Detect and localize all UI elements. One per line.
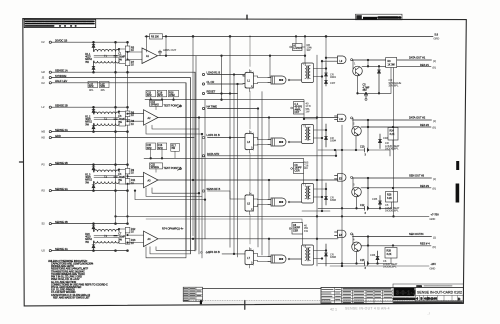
svg-text:C10: C10 (360, 146, 365, 149)
svg-text:1K: 1K (131, 182, 134, 185)
wire ch3 tie drop (367, 178, 369, 209)
wire RES 4 (361, 245, 431, 247)
wire FF7 to gate (258, 254, 269, 262)
svg-text:1K: 1K (131, 172, 134, 175)
nand gate L9 (335, 56, 353, 64)
capacitor C18 (100, 81, 110, 88)
diode CR2a (92, 107, 95, 114)
label CR magnet ch1 (389, 78, 402, 88)
svg-text:5.8: 5.8 (435, 32, 439, 36)
wire data-res tie ch2 (367, 120, 369, 128)
svg-text:3404: 3404 (330, 75, 336, 79)
node gnd bus crossings (316, 216, 394, 267)
nand gate L4 (268, 138, 302, 146)
pin LOFS R1 B (202, 133, 220, 139)
wire amp4 input taps (127, 234, 144, 243)
wire amp1 output (158, 55, 306, 57)
pin RESET (202, 90, 215, 95)
svg-text:H2: H2 (42, 70, 46, 74)
label -24 GND (430, 262, 437, 270)
wire data-res tie ch3 (367, 178, 369, 188)
node ch2 lower rail (93, 131, 129, 133)
svg-text:CKT: CKT (295, 111, 300, 114)
wire LOFS R1 B (208, 137, 246, 139)
resistor R26 (386, 192, 398, 209)
wire FF3 to gate (258, 138, 269, 146)
diode CR13 (379, 134, 389, 149)
svg-text:K2: K2 (42, 81, 46, 85)
drawing number black box (394, 288, 415, 296)
svg-text:SENSE 4A: SENSE 4A (55, 247, 68, 251)
wire amp3 input taps (127, 176, 144, 185)
capacitor C7 (114, 233, 126, 242)
transistor Q1 (353, 60, 363, 76)
svg-text:+7-750: +7-750 (431, 212, 440, 216)
transistor Q2 (352, 118, 362, 136)
pin LOFS R4 B (207, 250, 221, 254)
node ch2 input rail (93, 106, 129, 108)
wire DATA OUT 2 (353, 119, 432, 121)
capacitor C6 one-shot (291, 163, 304, 184)
vertical bus x237 (237, 84, 239, 257)
resistor R5 (125, 46, 134, 52)
svg-text:CER: CER (293, 229, 298, 232)
wire amp2 output (158, 117, 338, 119)
pin R2 SENSE 3A (42, 187, 68, 193)
label test point A (164, 104, 182, 108)
svg-text:1K 3W: 1K 3W (388, 63, 396, 66)
wire RES 3 (361, 187, 431, 189)
wire ch3 cluster bottom (318, 204, 392, 215)
capacitor C13A (146, 90, 156, 97)
pin U2 SENSE 4A (42, 247, 68, 253)
diode CR10 (325, 76, 336, 86)
svg-text:C12: C12 (360, 204, 365, 207)
small black blob at bottom border left of tick (200, 300, 202, 304)
wire SENSE 3A (51, 190, 127, 192)
flip-flop L1 (245, 69, 258, 92)
svg-text:SPRAG: SPRAG (151, 104, 160, 107)
svg-text:SENSE 3A: SENSE 3A (55, 187, 68, 191)
svg-text:LOFS R4 B: LOFS R4 B (207, 250, 221, 254)
wire CL CR (208, 83, 246, 85)
wire RES 1 (362, 66, 431, 68)
svg-text:OHM: OHM (169, 94, 175, 97)
right edge registration mark lower (456, 184, 460, 203)
svg-text:SPR: SPR (147, 94, 152, 97)
wire ch4 wrap 1 (156, 247, 195, 251)
svg-text:SPR: SPR (158, 147, 163, 150)
svg-text:DATA STR: DATA STR (207, 152, 219, 156)
nand gate L6 (268, 198, 302, 206)
svg-text:1K: 1K (131, 63, 134, 66)
svg-text:SPRAG: SPRAG (151, 166, 160, 169)
svg-text:L10: L10 (339, 118, 344, 121)
vertical bus x234 (233, 75, 235, 255)
svg-text:GND: GND (430, 217, 436, 221)
wire ch2 wrap 1 (152, 125, 199, 129)
wire LOAD R1 B (208, 74, 246, 76)
op-amp A3 (144, 172, 159, 188)
vertical bus x322 (321, 60, 323, 211)
svg-text:110: 110 (304, 166, 309, 170)
vertical bus x230 (229, 36, 231, 247)
label RES 3 (420, 184, 436, 191)
wire SEN OUT 3 (353, 177, 432, 179)
driver transformer T5 (302, 62, 327, 83)
wire C10 rail (318, 146, 390, 157)
svg-text:SENSE IN-OUT 4 B AN-4: SENSE IN-OUT 4 B AN-4 (345, 307, 390, 311)
svg-text:RES #3: RES #3 (420, 184, 429, 188)
diode CR1a (92, 42, 95, 51)
wire ch3 aux rail (302, 210, 330, 212)
op-amp A2 (144, 110, 159, 126)
notes block bottom-left (48, 260, 108, 300)
pin P2 SENSE 3B (42, 161, 68, 167)
wire network row1 rail (145, 97, 304, 102)
svg-text:CR6: CR6 (370, 253, 376, 257)
vertical bus group right of amps (193, 36, 205, 258)
wire ch2 tie drop (367, 120, 369, 151)
wire T4 secondary loop (118, 228, 125, 243)
wire data-res tie ch1 (367, 60, 369, 66)
diode CR11 (378, 66, 381, 94)
svg-text:R3 20K: R3 20K (151, 36, 159, 39)
wire ch2 wrap 2 (146, 125, 203, 135)
diode CR3a (92, 165, 95, 172)
wire SEN OUT 4 (353, 236, 432, 238)
pin LOAD R1 B (202, 71, 220, 76)
node ch3 input rail (93, 164, 129, 166)
vertical bus x258 (257, 109, 259, 248)
left edge registration tick (20, 161, 24, 163)
wire HALF LEV (51, 83, 186, 250)
wire network row2 rail (144, 150, 304, 163)
svg-text:20VDC 1B: 20VDC 1B (55, 38, 68, 42)
svg-text:1K: 1K (131, 231, 134, 234)
svg-text:CR5: CR5 (372, 197, 378, 201)
svg-text:1K: 1K (131, 242, 134, 245)
svg-text:DATA OUT #1: DATA OUT #1 (409, 55, 426, 59)
top center alignment tick (246, 15, 248, 19)
diode CR16 (325, 244, 337, 266)
capacitor C4 (114, 173, 126, 182)
wire SENSE 4A (51, 250, 127, 252)
svg-text:CL CR: CL CR (207, 80, 215, 84)
wire SENSE 4B (51, 223, 127, 225)
pin DATA STR (202, 152, 219, 157)
transformer T1 (94, 50, 120, 64)
driver transformer T7 (302, 183, 327, 204)
svg-text:LOFS R1 B: LOFS R1 B (207, 133, 221, 137)
wire data-res tie ch4 (367, 237, 369, 246)
wire +5V top bus (145, 35, 433, 37)
svg-text:SENSE IN-OUT-CARD 0102: SENSE IN-OUT-CARD 0102 (417, 290, 463, 295)
svg-text:DWG: DWG (417, 286, 423, 288)
code squares row under black box (394, 297, 415, 300)
label +5V (434, 32, 440, 40)
vertical rail cap column (115, 42, 117, 223)
wire ch4 emitter drop (356, 252, 358, 264)
vertical bus x342 (341, 125, 343, 266)
nand gate L12 (335, 230, 353, 238)
svg-text:(J): (J) (433, 235, 436, 239)
capacitor C3 (114, 115, 126, 124)
faint handwritten marks below title block (330, 307, 431, 316)
node ch4 input rail (93, 223, 129, 225)
label ch4 oneshot values (304, 224, 308, 233)
driver transformer T6 (302, 124, 327, 144)
label CR magnet ch2 (385, 141, 400, 151)
wire amp4 out to gate (268, 239, 270, 257)
right edge registration mark upper (456, 161, 459, 170)
svg-text:GRD: GRD (434, 37, 440, 41)
resistor R20 value text (85, 233, 92, 244)
wire ch4 cluster bottom (318, 259, 391, 270)
notice box top-left (24, 19, 96, 27)
wire ch4 wrap 3 (146, 83, 186, 258)
svg-text:180#: 180# (330, 255, 336, 259)
label test point B (164, 166, 182, 170)
svg-text:(K): (K) (433, 245, 437, 249)
svg-text:(J): (J) (433, 177, 436, 181)
sheet border frame (23, 19, 467, 306)
svg-text:DIODE,6PL: DIODE,6PL (385, 209, 399, 213)
svg-text:GRD: GRD (55, 134, 61, 138)
wire SENSE 2B (51, 106, 127, 108)
pin J2 SYNDRM (42, 74, 67, 80)
label R8 values (307, 43, 313, 52)
svg-text:4PL: 4PL (89, 88, 94, 92)
svg-text:AMPL OUT: AMPL OUT (163, 48, 177, 52)
label CR magnet ch3 (385, 203, 400, 213)
pin M2 SENSE 2A (42, 128, 68, 134)
transformer T3 (94, 170, 120, 184)
svg-text:RESET: RESET (207, 90, 216, 94)
diode CR9 (325, 63, 337, 79)
capacitor C16 (157, 143, 167, 150)
svg-text:CR7: CR7 (330, 81, 336, 85)
wire ch1 emitter rail (357, 76, 391, 94)
revision table (bottom left of title strip) (183, 287, 202, 301)
capacitor C15 test box (150, 163, 163, 172)
diode CR15 (372, 196, 382, 209)
svg-text:R2: R2 (42, 189, 46, 193)
svg-text:P2: P2 (42, 163, 46, 167)
label R65 (304, 161, 309, 171)
svg-text:SYNDRM: SYNDRM (55, 74, 66, 78)
svg-text:1K: 1K (131, 114, 134, 117)
wire ch3 wrap 1 (152, 188, 200, 194)
scale bar strip (394, 301, 462, 303)
svg-text:C13: C13 (360, 259, 365, 262)
wire SENSE 3B (51, 164, 127, 166)
resistor R6 (125, 111, 134, 117)
svg-text:SPR: SPR (89, 85, 94, 88)
flip-flop L5 (245, 192, 258, 215)
svg-text:180#: 180# (330, 139, 336, 143)
wire DATA OUT 1 (353, 59, 432, 61)
capacitor C5 (363, 84, 370, 99)
svg-text:SENS RF B: SENS RF B (207, 187, 221, 191)
svg-text:35V 6PL: 35V 6PL (389, 84, 400, 88)
wire -24V bus (330, 265, 429, 267)
resistor R16 (169, 90, 179, 97)
label RES 4 (420, 241, 436, 249)
resistor R7 (125, 60, 134, 66)
nand gate L2 (268, 76, 302, 84)
wire aux gnd line (146, 219, 302, 223)
wire amp3 out to gate (268, 180, 270, 200)
wire ch2 emitter drop (355, 136, 357, 150)
label RES 2 (420, 123, 436, 130)
svg-text:1K: 1K (131, 123, 134, 126)
wire RES 2 (361, 126, 431, 128)
pin HA TIME (202, 105, 217, 110)
svg-text:GND: GND (430, 266, 436, 270)
pin H2 SENSE 1A (42, 68, 68, 74)
wire amp1 input taps (127, 51, 142, 60)
vertical bus x393 (393, 60, 395, 216)
wire amp3 output (158, 179, 338, 181)
wire 20VDC 1B (51, 41, 127, 43)
svg-text:SENSE 4B: SENSE 4B (55, 220, 68, 224)
scan shading band above bottom border (183, 301, 462, 305)
svg-text:35V: 35V (363, 89, 368, 92)
wire from rev table to title block (203, 288, 322, 290)
diode CR2b (92, 124, 95, 132)
svg-text:SENSE 2B: SENSE 2B (55, 103, 68, 107)
svg-text:SPR: SPR (100, 85, 105, 88)
wire ch3 emitter drop (356, 197, 358, 209)
pin ch1 cap gnd (365, 98, 367, 100)
vertical bus x262 (261, 92, 263, 256)
resistor R1.3 value text (85, 174, 92, 185)
svg-text:RES #2: RES #2 (420, 123, 429, 127)
title block center table (342, 290, 394, 301)
wire SENSE 1A (51, 72, 195, 251)
label +7-750 GND (430, 212, 440, 220)
svg-text:(J): (J) (433, 59, 436, 63)
svg-text:RES #1: RES #1 (420, 63, 429, 67)
resistor R17 (171, 143, 180, 151)
pin test point A (178, 105, 182, 108)
wire bus to FF tops (249, 36, 251, 244)
wire ch4 tie drop (367, 237, 369, 265)
diode CR1b (92, 61, 95, 72)
svg-text:M2: M2 (42, 130, 46, 134)
wire ground bus mid (115, 216, 429, 218)
capacitor C15 (146, 143, 156, 150)
svg-text:(K): (K) (433, 65, 437, 69)
svg-text:1W: 1W (306, 110, 310, 114)
label CR magnet ch4 (383, 259, 398, 269)
diode CR14 (325, 183, 337, 205)
capacitor C8 one-shot (289, 223, 302, 246)
svg-text:CER: CER (295, 169, 300, 172)
svg-text:SEN OUT#4: SEN OUT#4 (409, 232, 424, 236)
nand gate L10 (335, 114, 353, 122)
capacitor C13 (88, 81, 98, 88)
wire RESET (208, 93, 238, 95)
diode CR12 (325, 124, 337, 147)
wire amp2 out to gate (268, 118, 270, 140)
pin test point B (178, 168, 182, 170)
svg-text:180#: 180# (330, 198, 336, 202)
svg-text:3.2K: 3.2K (390, 133, 395, 136)
capacitor C1 (114, 53, 126, 62)
wire amp4 output (158, 238, 338, 240)
capacitor C14 test box (150, 100, 163, 109)
svg-text:HA TIME: HA TIME (207, 105, 218, 109)
resistor R11 (125, 179, 136, 185)
svg-text:S2: S2 (42, 222, 46, 226)
driver transformer T8 (302, 244, 327, 265)
one-shot A5 (291, 102, 317, 120)
node on +5V bus (192, 36, 327, 38)
capacitor C11 tap (158, 48, 176, 56)
pin SENS RF B (202, 187, 220, 192)
svg-text:DATA OUT #2: DATA OUT #2 (409, 115, 426, 119)
diode CR4a (92, 224, 95, 232)
svg-text:B: B (421, 297, 423, 301)
svg-text:42 1: 42 1 (330, 308, 337, 312)
wire ch3 wrap 2 (146, 188, 202, 197)
svg-text:SENSE 1A: SENSE 1A (55, 68, 68, 72)
svg-text:SEN OUT #3: SEN OUT #3 (409, 173, 425, 177)
svg-text:3.2K: 3.2K (387, 197, 392, 200)
bottom center alignment tick (244, 301, 246, 310)
diode CR3b (92, 182, 95, 191)
svg-text:-24V: -24V (431, 262, 437, 266)
feedback resistor R3 (146, 34, 167, 57)
svg-text:LOAD R1 B: LOAD R1 B (207, 71, 221, 75)
transformer T4 (94, 230, 120, 244)
vertical rail resistor column (127, 42, 129, 223)
svg-text:DIODE,6PL: DIODE,6PL (385, 147, 399, 151)
wire amp1 out drop (221, 56, 223, 100)
capacitor C18A (157, 90, 167, 97)
wire ch3 wrap 3 (134, 190, 206, 201)
transistor Q4 (352, 234, 362, 252)
svg-text:3W: 3W (307, 48, 311, 52)
pin -24V note (201, 250, 211, 254)
top document number strip (356, 14, 403, 20)
svg-text:HALF LEV: HALF LEV (55, 79, 68, 83)
flip-flop L3 (245, 130, 258, 153)
wire T2 secondary loop (118, 111, 125, 126)
title block (321, 284, 464, 303)
svg-text:(K): (K) (433, 125, 437, 129)
svg-text:1W: 1W (304, 229, 308, 233)
svg-text:3.2K: 3.2K (387, 253, 392, 256)
pin CL CR (202, 80, 214, 85)
resistor R13 (125, 239, 136, 245)
svg-text:(K): (K) (433, 186, 437, 190)
svg-text:3·0·1·J: 3·0·1·J (396, 290, 416, 296)
wire +5 to T5 (325, 36, 327, 63)
svg-text:R74 OPAMP(1) 4+: R74 OPAMP(1) 4+ (162, 226, 184, 230)
svg-text:(J): (J) (433, 119, 436, 123)
svg-text:1-SHOT: 1-SHOT (293, 47, 302, 50)
label DATA OUT 2 (409, 115, 436, 123)
wire SYNDRM (51, 78, 190, 254)
pin L2 SENSE 2B (42, 103, 68, 109)
wire DATA STR bus (208, 150, 337, 157)
diode CR4b (92, 241, 95, 251)
wire amp1 out to gate (269, 56, 271, 78)
wire SENS RF B (208, 191, 246, 199)
